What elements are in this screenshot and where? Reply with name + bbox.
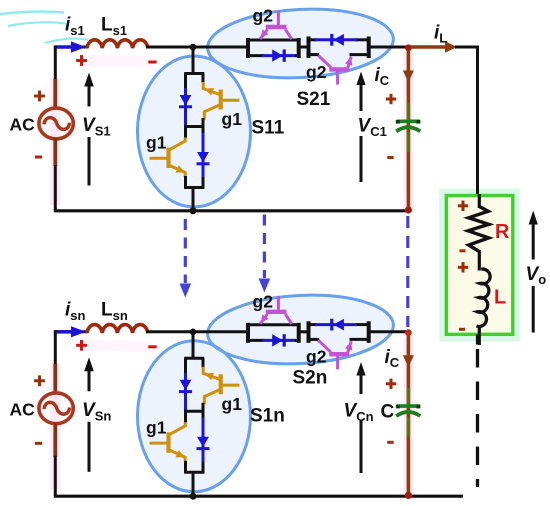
wire: S21 rect1 right edge — [297, 38, 301, 58]
wire: segment between rect1 and rect2 — [298, 330, 309, 333]
wire: S1n rect top line — [184, 357, 204, 360]
polarity + at capacitor — [386, 379, 396, 389]
wire: S1n rect bottom line — [184, 471, 204, 474]
diode D2 lower-right (blue, pointing down) — [202, 411, 205, 419]
wire: S2n rect1 left edge — [246, 323, 250, 343]
wire: S21 rect2 bottom branch — [307, 53, 320, 56]
wire: left vertical upper (cell 1) — [54, 46, 57, 81]
voltage arrow Vo (up) — [529, 211, 538, 225]
wire: S1n right branch to mid — [202, 403, 205, 413]
wire: S11 left branch below mid — [184, 127, 187, 139]
dashed blue link between capacitor nodes — [406, 216, 409, 327]
wire: between R and L — [478, 250, 481, 271]
inductor L (coil) — [476, 269, 490, 326]
wire: S21 rect2 left edge — [307, 37, 311, 59]
wire: brown segment below AC source — [53, 423, 57, 457]
wire: S21 rect1 bottom branch — [246, 54, 264, 57]
svg-text:iL: iL — [434, 23, 447, 46]
wire: S2n rect1 top branch — [246, 323, 299, 326]
wire: S2n rect2 right edge — [367, 321, 371, 343]
wire: brown segment below AC source — [53, 138, 57, 166]
svg-text:L: L — [494, 287, 506, 309]
dashed black wire from load to bottom rail — [476, 335, 479, 345]
wire: load entry — [478, 194, 481, 208]
svg-text:S21: S21 — [297, 89, 331, 110]
node: S11 top junction — [190, 44, 197, 51]
polarity + above inductor L — [458, 262, 468, 272]
svg-text:AC: AC — [10, 399, 36, 419]
svg-text:Lsn: Lsn — [101, 299, 128, 323]
svg-text:isn: isn — [65, 299, 86, 323]
S11 ellipse — [138, 56, 251, 207]
AC source Vsn circle — [39, 393, 73, 424]
svg-text:C: C — [381, 402, 395, 423]
voltage arrow VCn (up, black) — [356, 362, 365, 376]
polarity + at capacitor — [386, 94, 396, 104]
svg-text:VCn: VCn — [344, 401, 374, 425]
wire: S21 rect1 left edge — [246, 38, 250, 58]
wire: S1n left branch upper (black) — [184, 358, 187, 374]
wire: segment between rect1 and rect2 — [298, 46, 309, 49]
wire: rail from S21 to capacitor node — [368, 46, 408, 49]
polarity - below inductor L — [459, 328, 465, 331]
wire: S21 rect2 top branch — [307, 38, 318, 41]
S21 ellipse — [206, 5, 395, 83]
diode D1 upper-left (blue, pointing down) — [184, 88, 187, 127]
resistor R (zigzag) — [468, 207, 489, 252]
wire: top rail left segment (cell n) — [54, 330, 88, 333]
voltage arrow VS1 (up) — [84, 73, 94, 87]
transistor Q3 (magenta IGBT above rect1, gate g2 up) — [260, 11, 292, 39]
wire: S11 mid line — [184, 125, 204, 128]
polarity - at AC source — [35, 442, 42, 445]
diode D3 (blue, pointing right) in rect1 — [262, 54, 295, 57]
wire: top rail mid segment (cell 1) — [146, 46, 248, 49]
svg-text:g1: g1 — [146, 133, 167, 153]
wire: top rail mid segment (cell n) — [146, 330, 248, 333]
diode D1 upper-left (blue, pointing down) — [184, 373, 187, 412]
svg-text:g2: g2 — [306, 62, 327, 82]
svg-text:g2: g2 — [253, 6, 274, 26]
wire: left vertical lower (cell n) — [54, 456, 57, 496]
current arrow ic (down, brown) — [403, 355, 414, 367]
voltage arrow VC1 (up, black) — [356, 72, 365, 86]
svg-text:AC: AC — [10, 115, 36, 135]
capacitor C1 (green plates) — [397, 120, 420, 124]
node: S1n top junction — [190, 329, 197, 336]
wire: S11 rect bottom line — [184, 186, 204, 189]
wire: S11 bottom stem — [192, 188, 195, 211]
capacitor branch wire (brown) — [407, 47, 411, 211]
polarity + at inductor left — [76, 340, 87, 351]
transistor Q4 (magenta IGBT below rect2, gate g2 down) — [318, 340, 351, 369]
wire: bottom rail (cell n) — [54, 495, 463, 498]
capacitor Cn (green plates) — [397, 404, 420, 408]
wire: S2n rect2 bottom branch — [307, 338, 320, 341]
wire: S11 rect top line — [184, 72, 204, 75]
polarity - at capacitor — [387, 156, 393, 159]
transistor Q1 upper-right (orange IGBT, gate g1) — [203, 367, 239, 405]
node: capacitor branch bottom junction — [405, 206, 412, 213]
wire: bottom rail (cell 1) — [54, 209, 409, 212]
AC source Vs1 circle — [39, 108, 73, 139]
node: S1n bottom junction — [190, 493, 197, 500]
diode D4 (blue, pointing left) in rect2 — [315, 323, 357, 326]
current arrow isn (blue) — [55, 330, 72, 334]
wire: S1n left branch below mid — [184, 411, 187, 423]
polarity + at resistor — [458, 201, 468, 211]
svg-text:VSn: VSn — [82, 400, 111, 424]
wire: S11 right branch upper (black) — [202, 74, 205, 84]
voltage arrow VSn (up) — [84, 357, 94, 371]
wire: S11 left branch upper (black) — [184, 74, 187, 90]
svg-text:S2n: S2n — [293, 368, 328, 389]
polarity + at AC source — [34, 375, 45, 386]
wire: brown segment above AC source — [53, 79, 57, 109]
transistor Q3 (magenta IGBT above rect1, gate g2 up) — [260, 296, 292, 324]
wire: S1n right branch upper (black) — [202, 358, 205, 368]
wire: top rail to load corner — [455, 46, 478, 49]
wire: top rail left segment (cell 1) — [54, 46, 88, 49]
transistor Q2 lower-left (orange IGBT, gate g1) — [150, 422, 186, 462]
dashed blue gate-signal arrow (right) — [263, 215, 266, 279]
svg-text:VC1: VC1 — [358, 116, 387, 140]
polarity - at inductor right — [148, 345, 156, 348]
S2n ellipse — [206, 291, 395, 369]
wire: S2n rect2 top branch — [307, 323, 318, 326]
node: capacitor branch top junction — [405, 44, 412, 51]
wire: S21 rect2 right edge — [367, 37, 371, 59]
svg-text:g1: g1 — [146, 417, 167, 437]
node: capacitor branch top junction — [405, 329, 412, 336]
AC source sine wave — [44, 118, 70, 130]
polarity - at inductor right — [148, 61, 156, 64]
diode D4 (blue, pointing left) in rect2 — [315, 38, 357, 41]
inductor Ls1 coil — [87, 40, 148, 48]
svg-text:g1: g1 — [222, 109, 243, 129]
wire: S2n rect1 bottom branch — [246, 339, 264, 342]
wire: load exit — [478, 325, 481, 345]
wire: S11 right branch to mid — [202, 118, 205, 128]
transistor Q1 upper-right (orange IGBT, gate g1) — [203, 82, 239, 120]
wire: left vertical upper (cell n) — [54, 330, 57, 365]
svg-text:iC: iC — [385, 347, 400, 370]
polarity + at inductor left — [76, 55, 87, 66]
AC source sine wave — [44, 402, 70, 414]
svg-text:g1: g1 — [222, 394, 243, 414]
svg-text:S1n: S1n — [250, 406, 285, 427]
current arrow is1 (blue) — [55, 45, 72, 49]
node: S11 bottom junction — [190, 207, 197, 214]
wire: S11 left branch lower (black) — [184, 176, 187, 189]
diode D3 (blue, pointing right) in rect1 — [262, 339, 295, 342]
svg-text:Vo: Vo — [526, 264, 547, 287]
wire: S1n mid line — [184, 410, 204, 413]
wire: S11 top stem — [192, 47, 195, 75]
current arrow iL (brown, right) — [411, 45, 446, 49]
svg-text:S11: S11 — [252, 118, 285, 139]
load box (green) — [446, 196, 513, 335]
svg-text:VS1: VS1 — [82, 115, 111, 139]
diode D2 lower-right (blue, pointing down) — [202, 127, 205, 135]
wire: S2n rect1 right edge — [297, 323, 301, 343]
wire: S21 rect1 top branch — [246, 39, 299, 42]
polarity - below resistor — [460, 249, 466, 252]
capacitor branch wire (brown) — [407, 332, 411, 496]
svg-text:g2: g2 — [253, 292, 274, 312]
svg-text:is1: is1 — [65, 15, 85, 39]
S1n ellipse — [138, 341, 251, 492]
wire: S1n left branch lower (black) — [184, 461, 187, 474]
svg-text:R: R — [495, 221, 510, 243]
transistor Q4 (magenta IGBT below rect2, gate g2 down) — [318, 56, 351, 85]
wire: rail from S2n to capacitor node — [368, 330, 408, 333]
svg-text:iC: iC — [375, 65, 390, 88]
svg-text:g2: g2 — [306, 347, 327, 367]
inductor Lsn coil — [87, 325, 148, 333]
svg-text:Ls1: Ls1 — [101, 15, 127, 39]
wire: brown segment above AC source — [53, 364, 57, 394]
node: capacitor branch bottom junction — [405, 492, 412, 499]
polarity - at AC source — [35, 156, 42, 159]
current arrow ic (down, brown) — [403, 71, 414, 83]
wire: left vertical lower (cell 1) — [54, 165, 57, 211]
dashed blue gate-signal arrow (left) — [184, 219, 187, 283]
polarity - at capacitor — [387, 441, 393, 444]
polarity + at AC source — [34, 91, 45, 102]
wire: S2n rect2 left edge — [307, 321, 311, 343]
wire: S1n top stem — [192, 332, 195, 360]
wire: S1n bottom stem — [192, 472, 195, 496]
transistor Q2 lower-left (orange IGBT, gate g1) — [150, 138, 186, 178]
